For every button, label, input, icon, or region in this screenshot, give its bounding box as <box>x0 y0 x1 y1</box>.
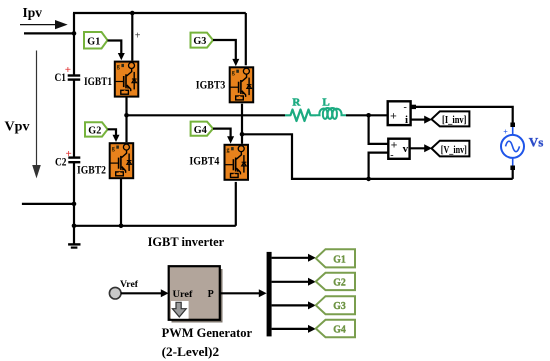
demux <box>267 252 272 337</box>
svg-text:G1: G1 <box>333 253 346 265</box>
svg-text:[V_inv]: [V_inv] <box>441 144 467 156</box>
svg-text:Vpv: Vpv <box>5 119 30 134</box>
svg-text:Vref: Vref <box>120 279 139 289</box>
wire G4 to gate <box>213 129 234 144</box>
node RL output junction <box>366 113 371 118</box>
wire G1 to gate <box>108 41 125 61</box>
svg-text:L: L <box>322 97 329 109</box>
goto tag G3 left <box>191 33 214 48</box>
svg-text:+: + <box>503 127 508 136</box>
wire left bus mid <box>73 79 75 157</box>
node ground junction <box>72 224 77 229</box>
svg-text:IGBT3: IGBT3 <box>196 77 226 91</box>
transistor IGBT3 <box>230 67 254 102</box>
annotation arrow Vpv <box>32 51 41 179</box>
node input junction <box>72 31 77 36</box>
goto tag I_inv <box>432 111 470 126</box>
svg-text:Vs: Vs <box>529 136 544 150</box>
node bottom input junction <box>72 202 77 207</box>
inductor L <box>316 108 346 119</box>
svg-text:G3: G3 <box>193 35 206 47</box>
wire G3 to gate <box>213 40 239 66</box>
svg-text:(2-Level)2: (2-Level)2 <box>162 344 220 359</box>
wire input bottom stub <box>22 203 74 205</box>
svg-text:PWM Generator: PWM Generator <box>162 325 253 340</box>
wire demux to G1 <box>272 254 316 262</box>
wire input top stub <box>24 32 74 34</box>
svg-text:IGBT4: IGBT4 <box>189 154 219 168</box>
svg-text:G4: G4 <box>194 124 207 136</box>
svg-text:+: + <box>66 148 72 160</box>
svg-text:-: - <box>404 102 407 113</box>
voltage measurement block V <box>388 138 409 162</box>
wire G2 to gate <box>108 129 120 142</box>
svg-text:G1: G1 <box>87 36 100 48</box>
svg-text:-: - <box>390 150 393 161</box>
svg-text:IGBT2: IGBT2 <box>77 162 106 176</box>
svg-text:G2: G2 <box>88 124 101 136</box>
svg-text:IGBT inverter: IGBT inverter <box>148 234 225 249</box>
wire left bus upper <box>73 13 75 76</box>
svg-text:+: + <box>135 31 141 42</box>
ground <box>68 244 80 247</box>
wire mid bus left <box>127 114 286 116</box>
transistor IGBT1 <box>115 62 139 97</box>
capacitor C1 <box>68 76 81 80</box>
svg-text:G4: G4 <box>333 324 346 336</box>
svg-text:+: + <box>390 109 397 123</box>
node bottom rail junction <box>366 177 371 182</box>
wire demux to G4 <box>272 325 316 333</box>
node top bus junction <box>130 11 135 16</box>
goto tag G2 right <box>316 273 355 290</box>
wire Vref to PWM <box>121 289 169 297</box>
resistor R <box>285 110 316 122</box>
wire bottom rail left <box>74 225 236 227</box>
wire IGBT1 collector drop <box>131 13 133 61</box>
goto tag G4 right <box>316 320 355 337</box>
wire mid bus right <box>346 114 388 116</box>
wire I- to Vs top <box>416 107 513 123</box>
goto tag G1 right <box>316 249 355 267</box>
svg-text:Ipv: Ipv <box>23 5 43 20</box>
svg-text:Uref: Uref <box>173 290 194 300</box>
transistor IGBT4 <box>224 145 248 180</box>
wire v output <box>410 144 432 152</box>
wire V+ branch <box>369 115 389 144</box>
capacitor C2 <box>68 158 80 163</box>
svg-text:IGBT1: IGBT1 <box>84 74 112 88</box>
PWM generator block <box>169 266 223 322</box>
node leg2 tap junction <box>240 132 245 137</box>
wire leg2 midpoint <box>241 104 243 144</box>
current measurement block I <box>388 101 416 126</box>
svg-text:v: v <box>403 143 409 155</box>
svg-text:P: P <box>208 289 214 300</box>
svg-text:G3: G3 <box>333 300 346 312</box>
svg-text:[I_inv]: [I_inv] <box>442 114 467 126</box>
wire IGBT3 collector drop <box>245 13 247 65</box>
wire demux to G2 <box>272 278 316 286</box>
wire V- branch <box>369 153 389 179</box>
wire PWM P to demux <box>220 289 267 297</box>
node leg1 midpoint junction <box>124 113 129 118</box>
svg-text:+: + <box>65 64 71 76</box>
node IGBT2 emitter junction <box>119 224 124 229</box>
wire IGBT2 emitter <box>120 179 122 226</box>
wire left bus lower <box>73 162 75 244</box>
svg-text:i: i <box>405 114 408 126</box>
input port Vref <box>109 287 121 299</box>
svg-text:R: R <box>292 97 301 109</box>
wire IGBT4 emitter <box>235 182 237 226</box>
transistor IGBT2 <box>110 143 134 178</box>
wire top bus <box>73 12 246 14</box>
goto tag G4 left <box>191 122 213 136</box>
goto tag G2 left <box>85 122 108 136</box>
goto tag V_inv <box>432 141 470 157</box>
wire demux to G3 <box>272 301 316 309</box>
wire leg1 midpoint <box>125 97 127 143</box>
goto tag G3 right <box>316 296 355 314</box>
annotation arrow Ipv <box>20 20 68 29</box>
goto tag G1 left <box>84 32 108 49</box>
wire leg2 tap to bottom rail <box>242 134 513 179</box>
svg-text:G2: G2 <box>333 277 346 289</box>
wire i output <box>411 116 432 124</box>
ac source Vs <box>501 123 524 179</box>
